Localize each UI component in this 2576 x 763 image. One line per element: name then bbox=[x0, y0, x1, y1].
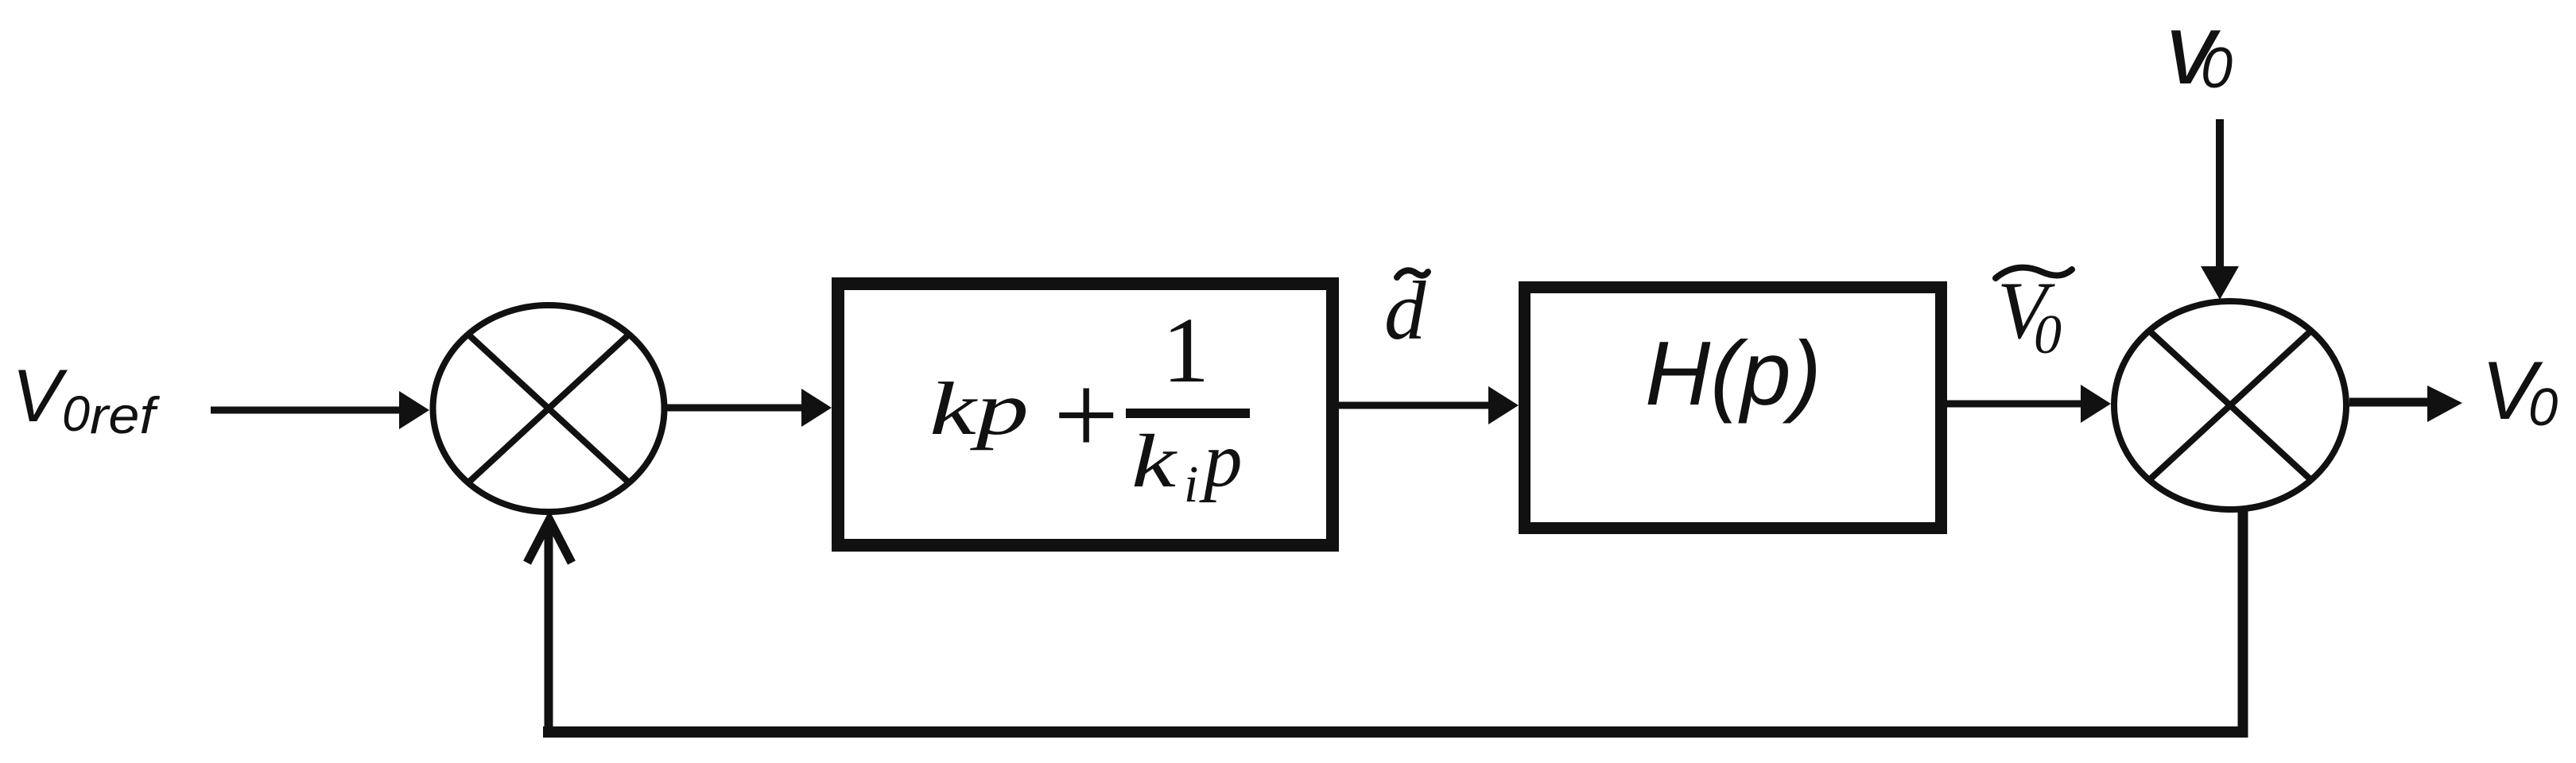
summing junction 1 bbox=[433, 305, 665, 512]
svg-text:H(p): H(p) bbox=[1645, 323, 1821, 424]
svg-text:1: 1 bbox=[1162, 298, 1209, 402]
svg-text:ref: ref bbox=[90, 386, 160, 444]
summing junction 2 bbox=[2114, 301, 2346, 509]
feedback wire: summer 2 bottom down bbox=[2238, 510, 2248, 738]
svg-text:+: + bbox=[1053, 351, 1119, 479]
svg-text:p: p bbox=[1199, 417, 1243, 502]
svg-text:V: V bbox=[12, 354, 68, 437]
wire PI block to H(p) block bbox=[1339, 402, 1490, 409]
svg-text:0: 0 bbox=[2528, 378, 2558, 437]
svg-text:0: 0 bbox=[2201, 37, 2233, 100]
feedback wire: left vertical up to summer 1 bbox=[545, 523, 553, 736]
node V0ref input label bbox=[12, 354, 160, 444]
PI controller block kp + 1/(ki p) bbox=[838, 284, 1333, 545]
wire H(p) to summer 2 bbox=[1947, 401, 2082, 408]
plant block H(p) bbox=[1525, 288, 1942, 529]
feedback wire: bottom horizontal bbox=[543, 726, 2248, 738]
node d-tilde label bbox=[1384, 264, 1428, 357]
svg-text:kp: kp bbox=[929, 366, 1029, 451]
wire v0 down into summer 2 bbox=[2216, 119, 2224, 270]
svg-text:0: 0 bbox=[62, 386, 90, 442]
node V0 output label bbox=[2481, 345, 2558, 437]
svg-text:0: 0 bbox=[2034, 304, 2062, 366]
wire summer 2 to V0 output bbox=[2349, 398, 2430, 407]
open arrowhead into summer 1 bbox=[527, 520, 572, 563]
node v0 disturbance label bbox=[2166, 0, 2233, 105]
fraction bar bbox=[1126, 409, 1250, 418]
wire summer 1 to PI block bbox=[667, 405, 803, 412]
svg-text:k: k bbox=[1131, 419, 1177, 503]
wire V0ref to summer 1 bbox=[211, 407, 401, 414]
svg-text:i: i bbox=[1184, 455, 1198, 513]
node V0-tilde label bbox=[1996, 265, 2072, 366]
